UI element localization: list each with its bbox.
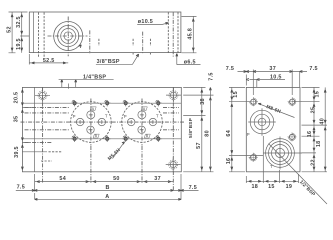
hidden hole dashed pair left (39, 13, 45, 58)
block outline side view (246, 87, 300, 171)
svg-text:5/8"BSP: 5/8"BSP (188, 117, 194, 138)
bottom dim row A (35, 193, 181, 200)
svg-text:32.5: 32.5 (16, 16, 22, 28)
counterbore port circles (54, 22, 83, 51)
right dim column outer (316, 87, 326, 171)
SIDE VIEW GROUP (226, 66, 327, 204)
svg-text:80: 80 (205, 130, 211, 137)
valve cluster 2 (122, 99, 163, 146)
top dim 7.5/37/7.5 (226, 66, 318, 87)
counterbore centerlines (48, 17, 88, 57)
hidden dash col 2 (132, 39, 134, 55)
dim 32.5 / 19.5 left (16, 12, 29, 53)
block outline front view (22, 87, 181, 171)
bottom dim row 7.5/B/7.5 (16, 174, 199, 200)
inner solid edge line (33, 12, 35, 53)
svg-text:3/8"BSP: 3/8"BSP (97, 59, 120, 65)
label 3/8 BSP (96, 54, 139, 65)
svg-text:50: 50 (113, 176, 120, 182)
svg-text:18: 18 (316, 140, 322, 147)
FRONT VIEW GROUP (14, 72, 215, 200)
label 1/4 BSP with leader drops (59, 74, 114, 88)
block outline top view (29, 12, 181, 53)
svg-text:15: 15 (315, 91, 321, 98)
svg-text:B: B (105, 185, 109, 191)
dim 10.5 (246, 74, 285, 87)
svg-text:37: 37 (154, 176, 161, 182)
phi10.5 hole hidden lines (168, 12, 178, 52)
svg-text:19: 19 (286, 184, 293, 190)
hidden centerline v2 (142, 32, 144, 54)
corner hole bottom-right (166, 157, 181, 172)
hidden dash col 3 (149, 39, 151, 55)
port T side (264, 137, 303, 170)
hidden dash col 1 (98, 39, 100, 46)
leader tick near counterbore (79, 45, 82, 48)
M8 hole 4 (249, 153, 258, 162)
dim 52.5 bottom (29, 54, 68, 65)
svg-text:7.5: 7.5 (208, 72, 214, 80)
svg-text:54: 54 (59, 176, 66, 182)
svg-text:22: 22 (311, 159, 317, 166)
horizontal centerline (21, 121, 185, 123)
svg-text:57: 57 (196, 142, 202, 149)
svg-text:35: 35 (14, 116, 20, 123)
svg-text:15: 15 (268, 184, 275, 190)
svg-text:7.5: 7.5 (17, 185, 25, 191)
bottom dim row 54/50/37 (35, 146, 174, 183)
svg-text:37: 37 (269, 66, 276, 72)
P T extension to bottom row (263, 136, 279, 183)
phi10.5 hole centerline (172, 12, 174, 57)
corner hole top-left (35, 88, 50, 103)
svg-text:25: 25 (311, 107, 317, 114)
svg-text:7.5: 7.5 (226, 66, 234, 72)
port P side (248, 108, 276, 136)
svg-text:52.5: 52.5 (43, 58, 55, 64)
left dim column 15/64/16 (226, 87, 263, 171)
dim 45.8 right (182, 16, 197, 52)
svg-text:15: 15 (233, 91, 239, 98)
svg-text:10.5: 10.5 (270, 74, 282, 80)
M8 hole 1 (249, 97, 258, 106)
svg-text:16: 16 (226, 158, 232, 165)
svg-text:20.5: 20.5 (14, 92, 20, 104)
label dia 10.5 (137, 19, 168, 25)
corner hole column left (42, 87, 44, 182)
label 1/2 BSP with leader (269, 144, 328, 205)
small dash row lower (41, 160, 52, 162)
svg-text:A: A (105, 194, 109, 200)
valve cluster 1 (71, 99, 112, 146)
right dim column inner (302, 87, 328, 171)
inner vertical edge line (34, 87, 36, 171)
label M5-6H (107, 142, 125, 162)
hidden centerline v1 (89, 30, 91, 53)
svg-text:T: T (270, 164, 273, 169)
svg-text:52: 52 (6, 26, 12, 33)
svg-text:40: 40 (319, 118, 325, 125)
svg-text:P: P (247, 132, 250, 137)
dim 52 left (6, 12, 27, 53)
left dash-dot rows (25, 108, 180, 143)
TOP VIEW GROUP (6, 12, 200, 89)
dim left 20.5/35/39.5 on edge (14, 90, 35, 169)
M8 hole 2 (288, 97, 297, 106)
dim right 38/57 (183, 87, 206, 171)
left small port line (22, 151, 47, 153)
label dia 6.5 (176, 54, 201, 66)
bolt row lines (22, 103, 181, 139)
svg-text:7.5: 7.5 (309, 66, 317, 72)
svg-text:18: 18 (251, 184, 258, 190)
corner hole column right (172, 87, 174, 191)
svg-text:38: 38 (200, 98, 206, 105)
M8 hole 3 (287, 132, 296, 141)
bottom dim 18/15/19 (246, 174, 298, 190)
svg-text:39.5: 39.5 (14, 146, 20, 158)
svg-text:7.5: 7.5 (189, 185, 197, 191)
dim right 7.5/80 (183, 72, 214, 172)
svg-text:19.5: 19.5 (16, 38, 22, 50)
hole extension lines up (253, 70, 302, 102)
corner hole top-right (166, 88, 181, 103)
svg-text:16: 16 (307, 131, 313, 138)
label M8-6H with leader (258, 103, 294, 117)
svg-text:64: 64 (226, 130, 232, 137)
svg-text:45.8: 45.8 (187, 28, 193, 40)
